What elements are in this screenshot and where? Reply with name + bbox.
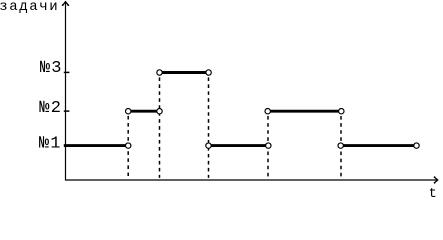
node circle end task2a [157, 109, 162, 114]
svg-text:№3: №3 [40, 59, 63, 78]
x-axis arrowhead [434, 176, 438, 183]
dashed transition t3 x=208.5 [208, 77, 210, 177]
y-axis [65, 2, 67, 181]
node circle start task2a [126, 109, 131, 114]
node circle end task1b [266, 143, 271, 148]
node circle end task1c [414, 143, 419, 148]
x-axis [65, 179, 437, 181]
dashed transition t4 x=268 [267, 116, 269, 178]
node circle start task1b [206, 143, 211, 148]
y-axis arrowhead [62, 2, 69, 6]
node circle end task1a [126, 143, 131, 148]
segment task2 run a [128, 110, 159, 113]
segment task3 run [160, 71, 209, 74]
segment task1 run a [64, 144, 128, 147]
segment task2 run b [268, 110, 342, 113]
node circle start task1c [338, 143, 343, 148]
node circle end task2b [339, 109, 344, 114]
svg-text:№1: №1 [39, 134, 62, 153]
tick level N3 [64, 71, 70, 73]
segment task1 run b [209, 144, 269, 147]
node circle end task3 [206, 70, 211, 75]
node circle start task3 [157, 70, 162, 75]
svg-text:№2: №2 [39, 99, 62, 118]
segment task1 run c [341, 144, 417, 147]
svg-text:t: t [429, 187, 437, 199]
svg-text:задачи: задачи [0, 0, 59, 15]
node circle start task2b [265, 109, 270, 114]
dashed transition t1 x=128 [127, 116, 129, 178]
dashed transition t5 x=341 [340, 116, 342, 178]
tick level N2 [64, 110, 70, 112]
dashed transition t2 x=159.5 [159, 77, 161, 177]
